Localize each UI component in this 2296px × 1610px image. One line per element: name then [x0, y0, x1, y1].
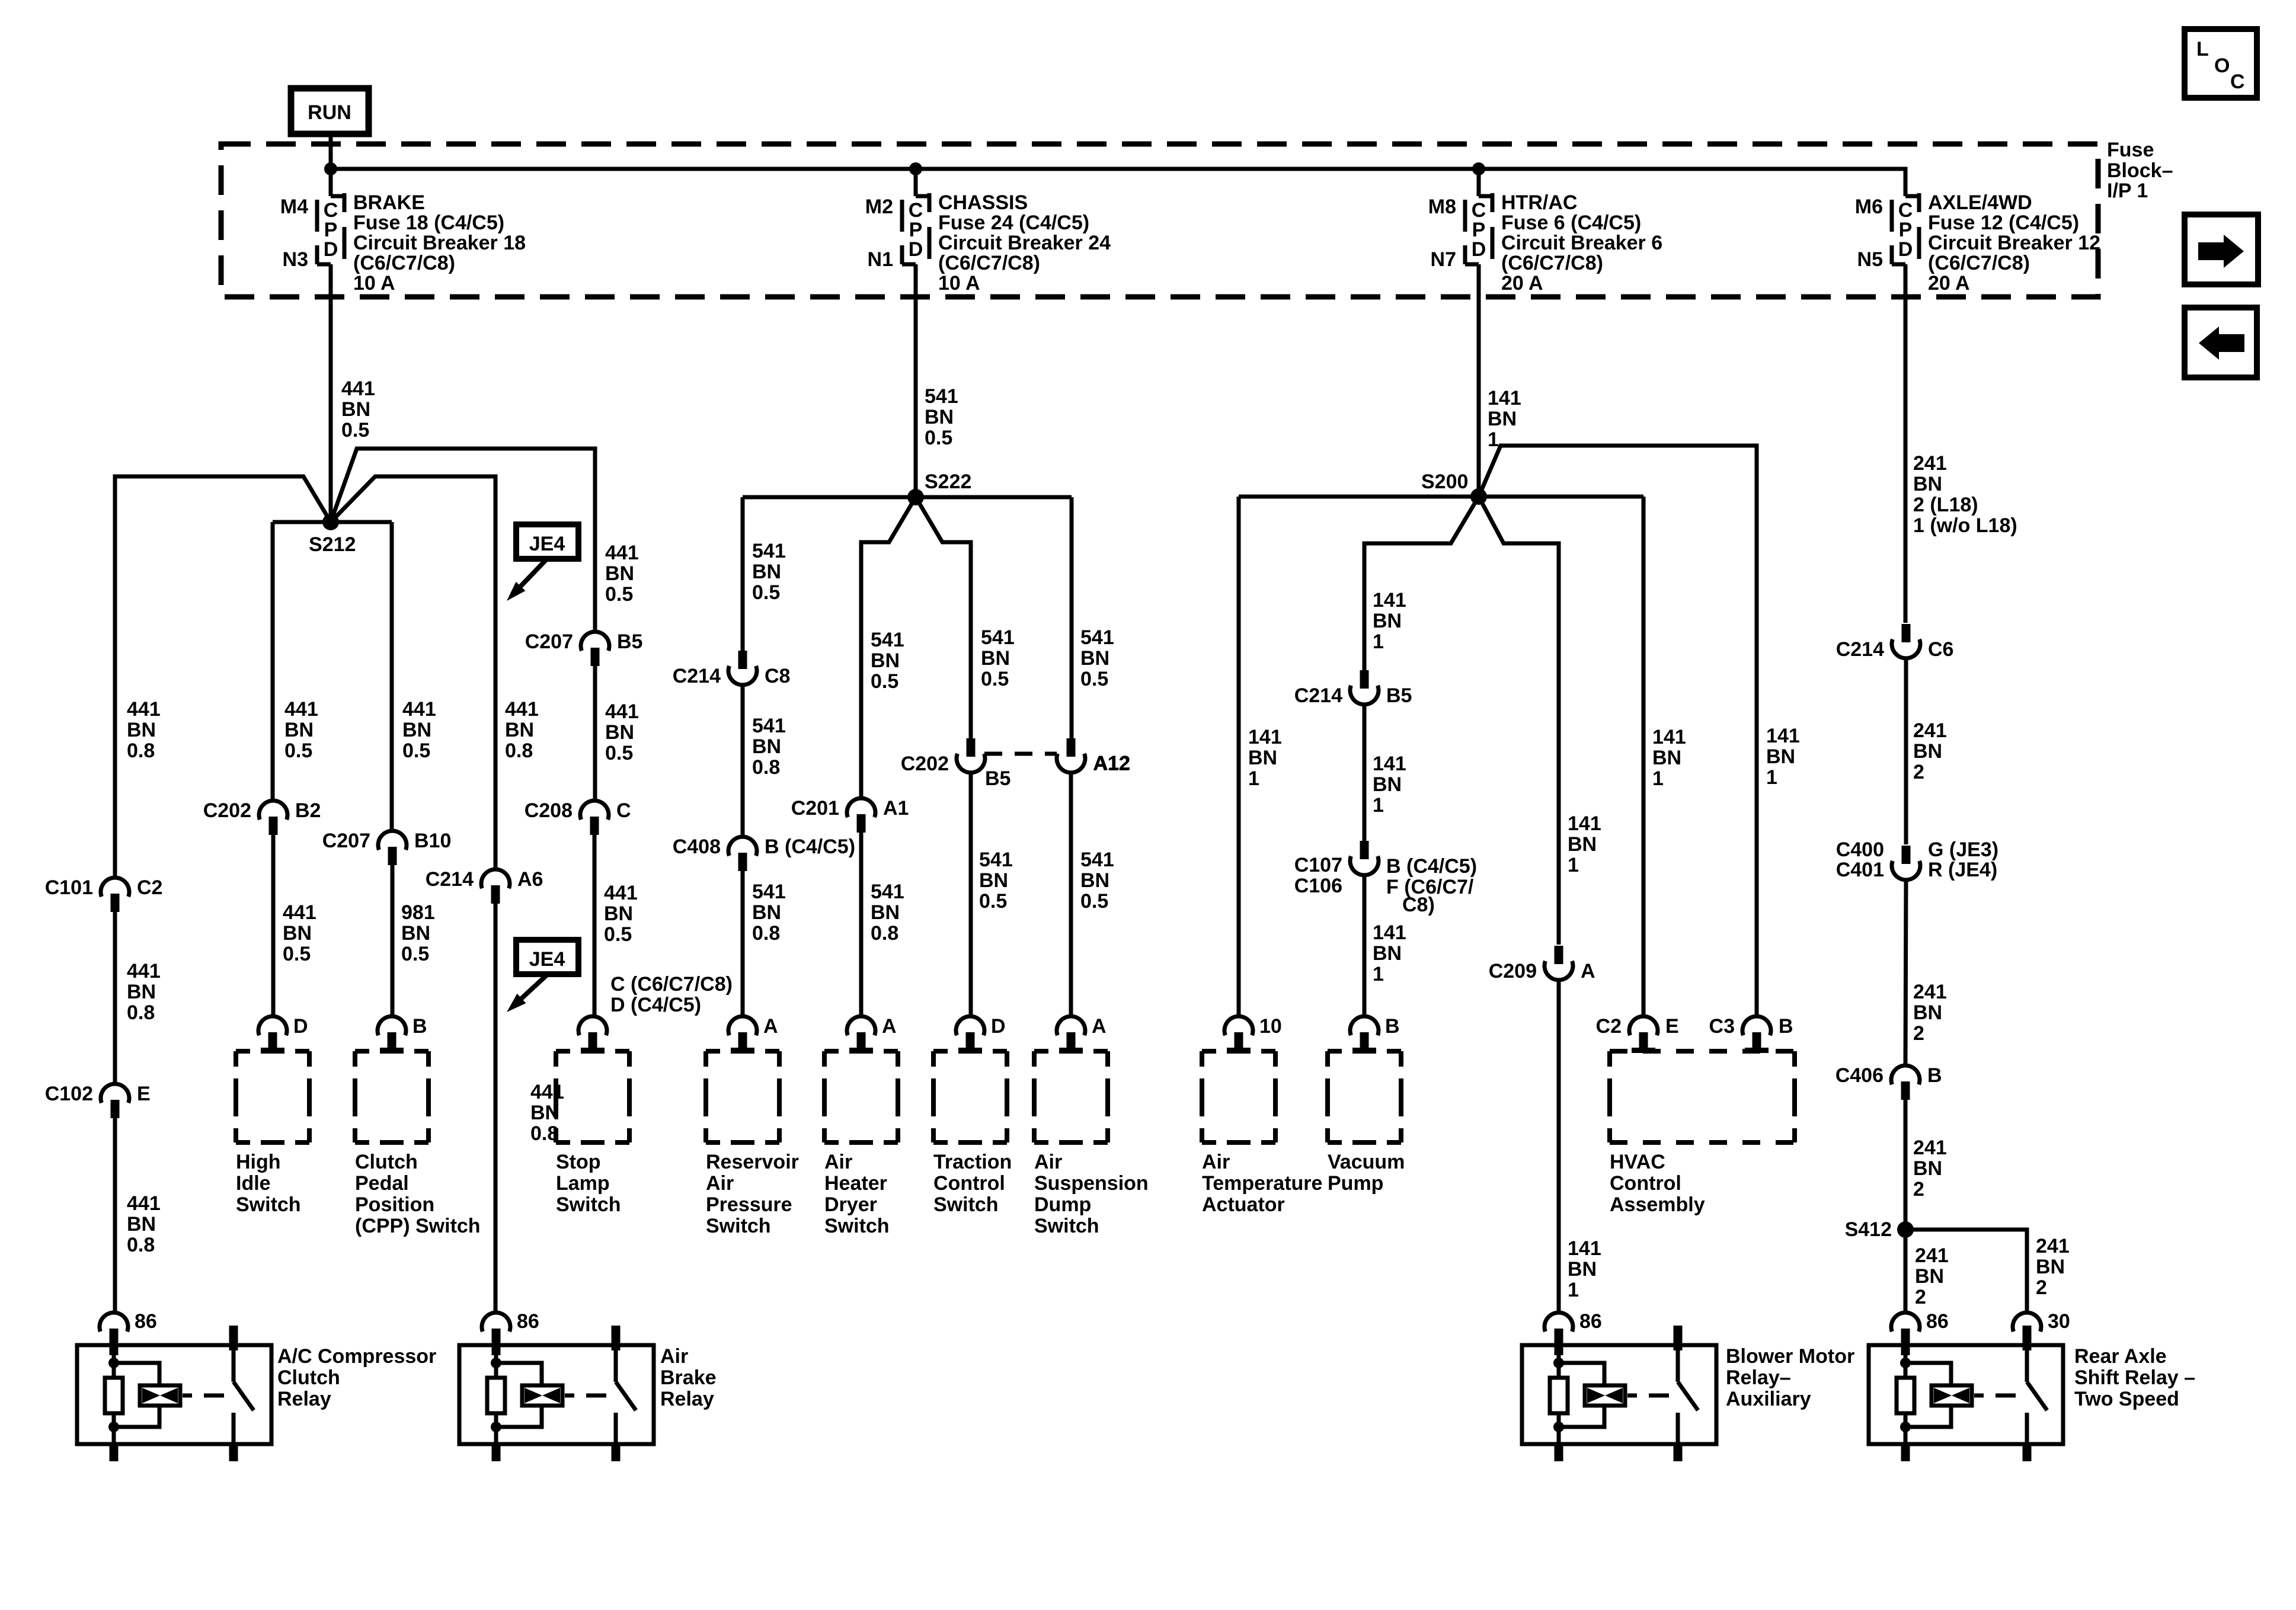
svg-text:541: 541	[871, 629, 904, 651]
svg-text:86: 86	[135, 1310, 157, 1333]
svg-text:C401: C401	[1836, 859, 1884, 881]
svg-text:C2: C2	[1596, 1015, 1622, 1038]
svg-text:Fuse 18 (C4/C5): Fuse 18 (C4/C5)	[353, 212, 504, 234]
svg-text:G (JE3): G (JE3)	[1928, 838, 1998, 861]
svg-text:BN: BN	[871, 901, 900, 924]
svg-text:(C6/C7/C8): (C6/C7/C8)	[1928, 252, 2030, 274]
svg-text:BN: BN	[604, 902, 633, 925]
svg-text:D: D	[909, 238, 923, 261]
svg-text:Assembly: Assembly	[1610, 1193, 1705, 1216]
svg-text:86: 86	[1579, 1310, 1602, 1333]
svg-text:Switch: Switch	[706, 1215, 771, 1237]
svg-text:Actuator: Actuator	[1202, 1193, 1285, 1216]
svg-text:Circuit Breaker 6: Circuit Breaker 6	[1501, 232, 1662, 254]
svg-text:BN: BN	[871, 649, 900, 672]
svg-text:441: 441	[341, 377, 375, 400]
svg-text:141: 141	[1568, 1237, 1601, 1260]
svg-text:D (C4/C5): D (C4/C5)	[610, 994, 701, 1016]
svg-text:C207: C207	[525, 630, 573, 653]
svg-text:2: 2	[1913, 1178, 1924, 1201]
svg-text:541: 541	[871, 881, 904, 903]
svg-text:0.8: 0.8	[127, 1234, 155, 1256]
svg-text:Clutch: Clutch	[277, 1366, 340, 1389]
svg-text:541: 541	[979, 849, 1013, 871]
svg-text:Air: Air	[660, 1345, 688, 1368]
svg-text:A1: A1	[883, 797, 909, 820]
svg-text:B: B	[1927, 1064, 1942, 1087]
svg-text:1: 1	[1766, 766, 1777, 789]
svg-text:241: 241	[1915, 1244, 1949, 1267]
svg-text:Air: Air	[1034, 1151, 1062, 1173]
svg-text:BN: BN	[752, 735, 781, 758]
svg-text:0.8: 0.8	[752, 756, 780, 779]
svg-text:BN: BN	[1913, 740, 1942, 763]
svg-text:Relay: Relay	[660, 1388, 714, 1410]
svg-text:A: A	[1581, 960, 1595, 982]
svg-text:Brake: Brake	[660, 1366, 717, 1389]
svg-text:C8: C8	[765, 665, 790, 687]
svg-text:86: 86	[1926, 1310, 1949, 1333]
svg-text:Fuse: Fuse	[2107, 139, 2154, 161]
svg-text:541: 541	[752, 881, 786, 903]
svg-text:BN: BN	[925, 406, 954, 428]
svg-text:441: 441	[604, 882, 638, 904]
svg-text:BN: BN	[505, 719, 534, 741]
svg-text:141: 141	[1766, 725, 1800, 747]
svg-text:BN: BN	[605, 562, 634, 585]
svg-text:AXLE/4WD: AXLE/4WD	[1928, 191, 2032, 214]
svg-text:A/C Compressor: A/C Compressor	[277, 1345, 436, 1368]
svg-text:BN: BN	[402, 719, 431, 741]
svg-text:BN: BN	[1766, 745, 1795, 768]
svg-text:BN: BN	[341, 398, 370, 421]
svg-text:BN: BN	[752, 561, 781, 583]
svg-text:Control: Control	[933, 1172, 1005, 1195]
svg-text:B5: B5	[617, 630, 642, 653]
svg-text:0.5: 0.5	[401, 943, 429, 965]
svg-text:0.5: 0.5	[284, 740, 312, 762]
svg-text:981: 981	[401, 901, 435, 924]
svg-text:Dump: Dump	[1034, 1193, 1091, 1216]
svg-text:C408: C408	[673, 836, 721, 858]
svg-text:M4: M4	[280, 196, 308, 218]
svg-text:0.5: 0.5	[871, 670, 898, 693]
svg-text:0.5: 0.5	[402, 740, 430, 762]
svg-text:B: B	[1385, 1015, 1400, 1038]
svg-text:141: 141	[1652, 726, 1686, 748]
svg-text:1: 1	[1373, 963, 1384, 985]
svg-text:N3: N3	[283, 248, 308, 271]
svg-text:C214: C214	[426, 868, 474, 891]
svg-text:Rear Axle: Rear Axle	[2074, 1345, 2167, 1368]
svg-text:D: D	[1472, 238, 1486, 261]
svg-text:C202: C202	[901, 753, 949, 775]
svg-text:Circuit Breaker 18: Circuit Breaker 18	[353, 232, 526, 254]
svg-text:BN: BN	[1248, 747, 1277, 769]
svg-text:2: 2	[1913, 761, 1924, 783]
svg-text:0.5: 0.5	[604, 923, 632, 946]
svg-text:Fuse 24 (C4/C5): Fuse 24 (C4/C5)	[938, 212, 1089, 234]
svg-text:BN: BN	[127, 1213, 156, 1235]
svg-text:BN: BN	[127, 981, 156, 1003]
svg-text:N5: N5	[1857, 248, 1883, 271]
svg-text:(C6/C7/C8): (C6/C7/C8)	[1501, 252, 1603, 274]
svg-text:C214: C214	[1294, 684, 1342, 707]
svg-text:BN: BN	[1568, 833, 1597, 856]
svg-text:Air: Air	[1202, 1151, 1230, 1173]
svg-text:B (C4/C5): B (C4/C5)	[1386, 855, 1477, 878]
svg-text:Fuse 12 (C4/C5): Fuse 12 (C4/C5)	[1928, 212, 2079, 234]
svg-text:441: 441	[284, 698, 318, 721]
svg-text:BN: BN	[1913, 1001, 1942, 1024]
svg-text:C207: C207	[322, 830, 370, 852]
svg-text:Shift Relay –: Shift Relay –	[2074, 1366, 2195, 1389]
svg-text:BN: BN	[1080, 647, 1109, 670]
svg-text:0.5: 0.5	[925, 427, 952, 449]
svg-text:JE4: JE4	[529, 948, 565, 971]
svg-text:Traction: Traction	[933, 1151, 1012, 1173]
svg-text:High: High	[236, 1151, 281, 1173]
svg-text:10 A: 10 A	[938, 272, 980, 295]
svg-text:441: 441	[605, 542, 639, 564]
svg-text:C201: C201	[791, 797, 839, 820]
svg-text:541: 541	[925, 385, 958, 408]
svg-text:0.5: 0.5	[283, 943, 311, 965]
svg-text:BN: BN	[979, 869, 1008, 892]
svg-text:0.8: 0.8	[505, 740, 533, 762]
svg-text:D: D	[324, 238, 338, 261]
svg-text:N1: N1	[868, 248, 893, 271]
svg-text:0.5: 0.5	[979, 890, 1007, 913]
svg-text:C3: C3	[1709, 1015, 1735, 1038]
svg-text:0.5: 0.5	[1080, 890, 1108, 913]
svg-text:Switch: Switch	[933, 1193, 999, 1216]
svg-text:141: 141	[1568, 812, 1601, 835]
svg-text:Pressure: Pressure	[706, 1193, 792, 1216]
svg-text:1: 1	[1373, 630, 1384, 653]
svg-text:441: 441	[605, 700, 639, 723]
svg-text:N7: N7	[1431, 248, 1456, 271]
svg-text:Reservoir: Reservoir	[706, 1151, 799, 1173]
svg-text:441: 441	[402, 698, 436, 721]
svg-text:M6: M6	[1855, 196, 1883, 218]
svg-text:(C6/C7/C8): (C6/C7/C8)	[938, 252, 1040, 274]
svg-text:241: 241	[2036, 1235, 2070, 1257]
svg-text:1 (w/o L18): 1 (w/o L18)	[1913, 514, 2017, 537]
svg-text:Heater: Heater	[824, 1172, 887, 1195]
svg-text:Switch: Switch	[824, 1215, 890, 1237]
svg-text:Switch: Switch	[236, 1193, 301, 1216]
svg-text:A6: A6	[517, 868, 543, 891]
svg-text:C2: C2	[137, 876, 162, 899]
svg-text:B: B	[412, 1015, 427, 1038]
svg-text:541: 541	[1080, 626, 1114, 649]
svg-text:BN: BN	[1488, 408, 1517, 430]
svg-text:0.5: 0.5	[605, 742, 633, 764]
svg-text:C209: C209	[1489, 960, 1537, 982]
svg-text:B: B	[1779, 1015, 1793, 1038]
svg-text:441: 441	[127, 698, 161, 721]
svg-text:C106: C106	[1294, 875, 1342, 897]
svg-text:541: 541	[752, 715, 786, 737]
svg-text:BN: BN	[1913, 473, 1942, 495]
svg-text:0.5: 0.5	[341, 419, 369, 441]
svg-text:Fuse 6 (C4/C5): Fuse 6 (C4/C5)	[1501, 212, 1641, 234]
svg-text:L: L	[2196, 38, 2209, 60]
svg-text:0.5: 0.5	[752, 581, 780, 604]
svg-text:R (JE4): R (JE4)	[1928, 859, 1997, 881]
svg-text:(CPP) Switch: (CPP) Switch	[355, 1215, 481, 1237]
svg-text:0.8: 0.8	[752, 922, 780, 945]
svg-text:441: 441	[505, 698, 539, 721]
svg-text:Dryer: Dryer	[824, 1193, 877, 1216]
svg-text:BN: BN	[1652, 747, 1681, 769]
svg-text:Relay: Relay	[277, 1388, 331, 1410]
svg-text:0.5: 0.5	[981, 668, 1009, 690]
svg-text:2: 2	[1913, 1022, 1924, 1045]
svg-text:241: 241	[1913, 719, 1947, 742]
svg-text:BN: BN	[1373, 773, 1402, 796]
svg-text:Circuit Breaker 24: Circuit Breaker 24	[938, 232, 1111, 254]
svg-text:BN: BN	[605, 721, 634, 744]
svg-text:10 A: 10 A	[353, 272, 395, 295]
svg-text:Pump: Pump	[1328, 1172, 1383, 1195]
svg-text:2 (L18): 2 (L18)	[1913, 494, 1978, 516]
svg-text:Pedal: Pedal	[355, 1172, 409, 1195]
svg-text:541: 541	[1080, 849, 1114, 871]
svg-text:1: 1	[1652, 767, 1664, 790]
svg-text:S412: S412	[1845, 1218, 1892, 1241]
svg-text:C (C6/C7/C8): C (C6/C7/C8)	[610, 973, 733, 996]
svg-text:M2: M2	[865, 196, 893, 218]
svg-text:C8): C8)	[1402, 894, 1435, 916]
svg-text:1: 1	[1248, 767, 1259, 790]
svg-text:0.5: 0.5	[1080, 668, 1108, 690]
svg-text:BN: BN	[1373, 610, 1402, 632]
svg-text:0.5: 0.5	[605, 583, 633, 606]
svg-text:2: 2	[2036, 1276, 2047, 1299]
svg-text:A: A	[882, 1015, 897, 1038]
svg-text:Air: Air	[706, 1172, 734, 1195]
svg-text:1: 1	[1488, 428, 1499, 451]
svg-text:10: 10	[1259, 1015, 1282, 1038]
svg-text:JE4: JE4	[529, 533, 565, 555]
svg-text:I/P 1: I/P 1	[2107, 180, 2148, 202]
svg-text:1: 1	[1568, 854, 1579, 876]
svg-text:Temperature: Temperature	[1202, 1172, 1322, 1195]
svg-text:141: 141	[1248, 726, 1282, 748]
svg-text:S200: S200	[1421, 470, 1468, 493]
svg-text:BN: BN	[981, 647, 1010, 670]
svg-text:241: 241	[1913, 1137, 1947, 1159]
svg-text:Stop: Stop	[556, 1151, 601, 1173]
svg-text:C101: C101	[45, 876, 93, 899]
svg-text:Air: Air	[824, 1151, 852, 1173]
svg-text:20 A: 20 A	[1501, 272, 1543, 295]
svg-text:541: 541	[752, 540, 786, 562]
svg-text:BN: BN	[284, 719, 314, 741]
svg-text:Switch: Switch	[556, 1193, 621, 1216]
svg-text:C406: C406	[1835, 1064, 1884, 1087]
svg-text:Switch: Switch	[1034, 1215, 1099, 1237]
svg-text:Auxiliary: Auxiliary	[1726, 1388, 1811, 1410]
svg-text:BN: BN	[1915, 1265, 1944, 1288]
svg-text:Block–: Block–	[2107, 159, 2173, 182]
svg-text:C214: C214	[673, 665, 721, 687]
svg-text:BN: BN	[752, 901, 781, 924]
svg-text:B5: B5	[1386, 684, 1412, 707]
svg-text:(C6/C7/C8): (C6/C7/C8)	[353, 252, 455, 274]
svg-text:Vacuum: Vacuum	[1328, 1151, 1405, 1173]
svg-text:BN: BN	[283, 922, 312, 945]
svg-text:HVAC: HVAC	[1610, 1151, 1665, 1173]
svg-text:Clutch: Clutch	[355, 1151, 418, 1173]
svg-text:S212: S212	[309, 533, 356, 556]
svg-text:1: 1	[1373, 794, 1384, 817]
svg-text:441: 441	[127, 960, 161, 982]
svg-text:141: 141	[1373, 921, 1406, 944]
svg-text:30: 30	[2048, 1310, 2070, 1333]
svg-text:E: E	[1665, 1015, 1679, 1038]
svg-text:Relay–: Relay–	[1726, 1366, 1791, 1389]
svg-text:20 A: 20 A	[1928, 272, 1970, 295]
svg-text:BN: BN	[401, 922, 430, 945]
svg-text:141: 141	[1373, 753, 1406, 775]
svg-text:RUN: RUN	[308, 101, 351, 124]
svg-text:0.8: 0.8	[871, 922, 898, 945]
svg-text:Position: Position	[355, 1193, 434, 1216]
svg-text:A12: A12	[1093, 752, 1130, 774]
svg-text:Blower Motor: Blower Motor	[1726, 1345, 1854, 1368]
svg-text:241: 241	[1913, 981, 1947, 1003]
svg-text:Circuit Breaker 12: Circuit Breaker 12	[1928, 232, 2100, 254]
svg-text:CHASSIS: CHASSIS	[938, 191, 1028, 214]
svg-text:BN: BN	[1568, 1258, 1597, 1281]
svg-text:BN: BN	[1913, 1157, 1942, 1180]
svg-text:BN: BN	[127, 719, 156, 741]
svg-text:Idle: Idle	[236, 1172, 271, 1195]
svg-text:141: 141	[1488, 387, 1521, 409]
svg-text:S222: S222	[925, 470, 971, 493]
svg-text:441: 441	[127, 1192, 161, 1215]
svg-text:C202: C202	[203, 799, 251, 822]
svg-text:C400: C400	[1836, 838, 1884, 861]
svg-text:Control: Control	[1610, 1172, 1681, 1195]
svg-text:C214: C214	[1836, 638, 1884, 661]
svg-text:BRAKE: BRAKE	[353, 191, 425, 214]
svg-text:C6: C6	[1928, 638, 1953, 661]
svg-text:A: A	[763, 1015, 778, 1038]
svg-text:B (C4/C5): B (C4/C5)	[765, 836, 855, 858]
svg-text:D: D	[1898, 238, 1913, 261]
svg-text:541: 541	[981, 626, 1015, 649]
svg-text:D: D	[991, 1015, 1006, 1038]
svg-text:0.8: 0.8	[127, 740, 155, 762]
svg-text:241: 241	[1913, 452, 1947, 475]
svg-text:86: 86	[517, 1310, 539, 1333]
svg-text:C: C	[616, 799, 631, 822]
svg-text:Two Speed: Two Speed	[2074, 1388, 2179, 1410]
svg-text:C208: C208	[525, 799, 573, 822]
svg-text:2: 2	[1915, 1286, 1926, 1308]
svg-text:BN: BN	[2036, 1256, 2065, 1278]
svg-text:B2: B2	[295, 799, 321, 822]
svg-text:441: 441	[530, 1081, 564, 1103]
svg-text:Suspension: Suspension	[1034, 1172, 1149, 1195]
svg-text:441: 441	[283, 901, 316, 924]
svg-text:C: C	[2230, 71, 2245, 93]
svg-text:BN: BN	[1373, 942, 1402, 965]
svg-text:M8: M8	[1428, 196, 1456, 218]
svg-text:0.8: 0.8	[127, 1001, 155, 1024]
svg-text:D: D	[293, 1015, 308, 1038]
svg-text:Lamp: Lamp	[556, 1172, 610, 1195]
svg-text:BN: BN	[1080, 869, 1109, 892]
svg-text:1: 1	[1568, 1279, 1579, 1301]
svg-text:C107: C107	[1294, 854, 1342, 876]
svg-text:B5: B5	[985, 767, 1011, 790]
svg-text:O: O	[2214, 55, 2230, 77]
svg-text:141: 141	[1373, 589, 1406, 612]
svg-text:A: A	[1092, 1015, 1107, 1038]
svg-text:HTR/AC: HTR/AC	[1501, 191, 1577, 214]
svg-text:C102: C102	[45, 1083, 93, 1105]
svg-text:E: E	[137, 1083, 151, 1105]
svg-text:B10: B10	[414, 830, 451, 852]
